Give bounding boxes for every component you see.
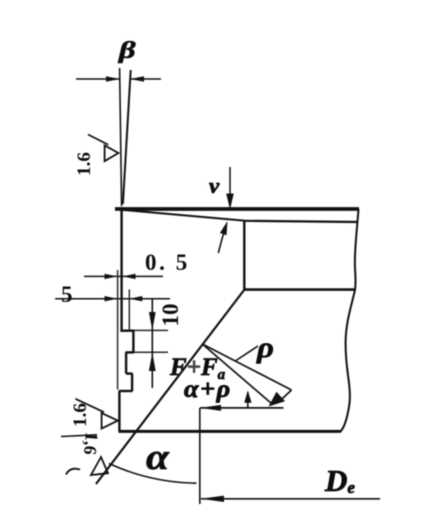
step E horizontal: [119, 390, 133, 392]
svg-text:α+ρ: α+ρ: [184, 375, 232, 403]
alpha+rho up arrow: [244, 391, 251, 408]
beta dimension line right with arrow: [130, 76, 161, 82]
extension tick x=129.3: [128, 290, 130, 332]
0.5 dimension line: [84, 275, 163, 277]
flank diagonal line (alpha face): [96, 290, 245, 485]
De extension line: [199, 408, 201, 504]
svg-text:1.6: 1.6: [70, 403, 91, 427]
surface symbol 3 stroke mark: [61, 435, 97, 437]
svg-text:De: De: [324, 463, 355, 498]
0.5 left arrowhead: [105, 274, 118, 279]
nu down arrow: [226, 167, 234, 210]
10 dimension shaft: [151, 299, 153, 388]
De dimension line with left arrow: [201, 496, 381, 502]
left edge lower vertical: [118, 391, 120, 431]
alpha angle arc: [109, 464, 197, 484]
surface symbol 3 curl mark: [66, 469, 80, 475]
bottom edge: [119, 430, 342, 433]
5 left arrowhead: [105, 296, 118, 301]
force wedge lower line: [202, 344, 271, 404]
step B extension line: [134, 329, 168, 331]
beta face line: [123, 70, 131, 204]
edge between D and E: [131, 374, 133, 391]
svg-text:α: α: [146, 437, 170, 478]
svg-text:1.6: 1.6: [74, 152, 95, 176]
nu up arrow with curved tail: [218, 221, 227, 253]
ground rake face line (angle nu): [122, 210, 245, 221]
svg-text:ρ: ρ: [256, 330, 274, 363]
right break line (wavy): [341, 209, 359, 432]
top edge of tooth (thick horizontal line): [115, 207, 359, 211]
edge between C and D: [125, 352, 127, 373]
svg-text:10: 10: [158, 304, 183, 327]
rho leader line: [236, 346, 258, 361]
step C extension line: [134, 351, 168, 353]
force wedge upper line: [202, 344, 291, 390]
rectangle bottom edge: [243, 288, 356, 291]
10 down arrowhead: [149, 312, 156, 330]
svg-text:1,6: 1,6: [80, 431, 102, 455]
step C horizontal: [126, 351, 135, 353]
extension line x=117.6: [117, 270, 119, 390]
surface finish symbol 3 (triangle at flank): [91, 457, 108, 475]
10 up arrowhead: [149, 353, 156, 372]
5 right arrowhead: [129, 296, 142, 301]
step B horizontal: [120, 330, 134, 332]
horizontal baseline with left arrow: [200, 405, 284, 411]
0.5 right arrowhead: [123, 274, 136, 279]
beta dimension line left with arrow: [76, 76, 120, 82]
rectangle left vertical edge: [243, 221, 245, 291]
force wedge return line: [283, 390, 292, 399]
svg-text:5: 5: [61, 282, 73, 307]
surface finish symbol 1 (triangle at beta face): [105, 145, 119, 161]
surface symbol 1 tail stroke: [88, 135, 108, 145]
svg-text:0. 5: 0. 5: [145, 250, 190, 275]
step D horizontal: [126, 372, 132, 374]
svg-text:β: β: [118, 38, 136, 64]
5 dimension line: [55, 298, 170, 300]
svg-text:ν: ν: [209, 173, 220, 197]
force resultant arrowhead: [269, 392, 286, 407]
surface symbol 2 tail stroke: [75, 399, 104, 412]
edge between B and C: [132, 331, 134, 353]
left edge upper vertical: [120, 207, 122, 332]
surface finish symbol 2 (triangle at lower left edge): [102, 413, 118, 429]
rectangle top edge: [244, 221, 358, 222]
beta extension line (left): [120, 68, 122, 206]
